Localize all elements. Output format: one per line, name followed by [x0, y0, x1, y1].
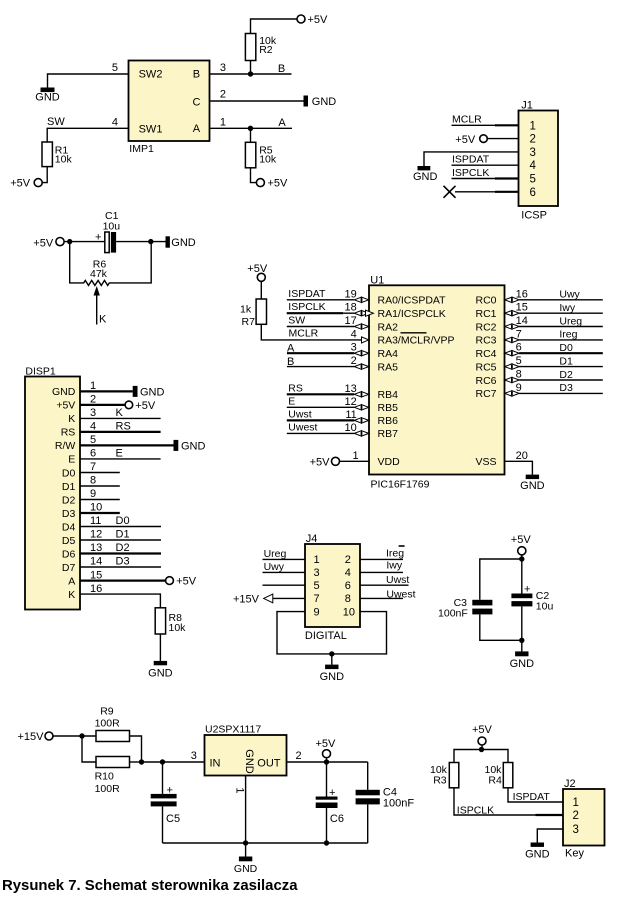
IC IMP1	[129, 61, 210, 142]
svg-text:IN: IN	[210, 757, 221, 769]
svg-text:J1: J1	[521, 100, 533, 112]
svg-text:16: 16	[90, 583, 102, 595]
svg-text:12: 12	[345, 396, 357, 408]
node junction C1 right	[148, 239, 153, 244]
wire Uwy pin 16	[505, 288, 603, 302]
svg-text:5: 5	[90, 434, 96, 446]
svg-text:8: 8	[345, 593, 351, 605]
svg-text:1: 1	[530, 120, 536, 132]
svg-text:D3: D3	[116, 556, 130, 568]
svg-text:Uwst: Uwst	[386, 574, 409, 586]
svg-text:RA3/MCLR/VPP: RA3/MCLR/VPP	[378, 335, 455, 347]
svg-text:4: 4	[351, 328, 357, 340]
wire J4 pins 9/10 loop to ground	[277, 612, 387, 654]
wire VSS pin 20 to ground	[505, 450, 533, 475]
svg-text:RB5: RB5	[378, 402, 399, 414]
svg-text:R/W: R/W	[55, 440, 76, 452]
ground J2	[525, 843, 550, 861]
svg-text:10: 10	[343, 606, 355, 618]
power +5V (R2 top)	[297, 14, 328, 26]
svg-text:9: 9	[314, 606, 320, 618]
svg-text:MCLR: MCLR	[452, 114, 482, 126]
svg-text:15: 15	[516, 302, 528, 314]
wire ISPDAT pin 19	[287, 288, 369, 303]
power +5V DISP1 pin2	[125, 400, 156, 412]
svg-text:RA0/ICSPDAT: RA0/ICSPDAT	[378, 295, 447, 307]
svg-text:RC2: RC2	[475, 321, 496, 333]
power +15V input	[18, 731, 54, 743]
power +5V (R1 bottom)	[10, 178, 42, 190]
power +5V (R3/R4)	[472, 724, 493, 750]
resistor R10 100R	[95, 757, 142, 795]
svg-text:D1: D1	[116, 529, 130, 541]
ground J1	[413, 166, 438, 183]
svg-text:+15V: +15V	[18, 731, 45, 743]
svg-text:GND: GND	[520, 480, 545, 492]
svg-text:RC5: RC5	[475, 361, 496, 373]
svg-text:11: 11	[90, 515, 101, 527]
svg-text:+5V: +5V	[56, 400, 75, 412]
connector J4	[305, 533, 360, 627]
svg-text:D1: D1	[559, 355, 573, 367]
svg-text:GND: GND	[140, 386, 165, 398]
wire SW pin 17	[287, 315, 369, 330]
wire Uwest J4 pin8	[360, 588, 416, 600]
svg-text:2: 2	[90, 394, 96, 406]
svg-text:A: A	[278, 117, 286, 129]
svg-text:Uwst: Uwst	[288, 408, 311, 420]
wire DISP1 pin7	[80, 461, 120, 473]
svg-text:12: 12	[90, 529, 102, 541]
node junction R3/R4 top	[479, 747, 484, 752]
svg-text:+5V: +5V	[316, 738, 337, 750]
capacitor C2 10u	[511, 584, 553, 613]
svg-text:E: E	[116, 448, 123, 460]
node junction U2 gnd rail	[243, 840, 248, 845]
svg-text:D7: D7	[62, 562, 76, 574]
svg-text:SW: SW	[47, 116, 65, 128]
svg-text:GND: GND	[510, 658, 535, 670]
svg-text:RC6: RC6	[475, 375, 496, 387]
svg-text:K: K	[68, 589, 75, 601]
wire DISP1 pin11 net D0	[80, 515, 161, 527]
node junction C2/C3 bottom	[519, 638, 524, 643]
wire ISPCLK to J2 pin2	[454, 788, 563, 817]
pin 4 input arrow	[351, 328, 369, 343]
wire Uwest pin 10	[287, 421, 369, 436]
ground (right of C wire)	[304, 96, 337, 109]
svg-text:RA4: RA4	[378, 348, 399, 360]
svg-text:10k: 10k	[55, 153, 73, 165]
wire R10 left branch	[82, 736, 96, 762]
svg-text:Iwy: Iwy	[559, 302, 576, 314]
svg-text:1: 1	[573, 797, 579, 809]
svg-text:2: 2	[530, 134, 536, 146]
svg-text:4: 4	[112, 116, 118, 128]
node junction A/R5	[248, 126, 253, 131]
svg-text:4: 4	[90, 421, 96, 433]
svg-text:2: 2	[345, 554, 351, 566]
node junction C3 top	[519, 556, 524, 561]
svg-text:E: E	[288, 395, 295, 407]
svg-text:D2: D2	[116, 542, 130, 554]
svg-text:3: 3	[90, 407, 96, 419]
wire pin3 net B	[210, 73, 292, 75]
svg-text:Ireg: Ireg	[559, 329, 577, 341]
svg-text:4: 4	[530, 160, 537, 172]
wire C3 branch top	[480, 559, 522, 600]
svg-text:100nF: 100nF	[383, 797, 414, 809]
node junction OUT/+5V	[324, 759, 329, 764]
svg-text:ISPDAT: ISPDAT	[452, 154, 490, 166]
resistor R4 10k	[485, 763, 513, 788]
wire Ureg pin 14	[505, 315, 603, 329]
node junction C1 left	[67, 239, 72, 244]
svg-text:5: 5	[530, 174, 536, 186]
svg-text:6: 6	[90, 448, 96, 460]
svg-text:8: 8	[516, 369, 522, 381]
svg-text:RA2: RA2	[378, 321, 399, 333]
resistor R2 10k	[245, 19, 297, 74]
svg-text:MCLR: MCLR	[289, 328, 319, 340]
svg-text:Rysunek 7. Schemat sterownika: Rysunek 7. Schemat sterownika zasilacza	[2, 878, 298, 894]
IC U1 PIC16F1769	[369, 274, 505, 474]
node junction R9/R10 left	[79, 733, 84, 738]
svg-text:19: 19	[345, 288, 357, 300]
svg-text:+: +	[167, 784, 173, 796]
wire DISP1 pin10	[80, 502, 120, 514]
svg-text:R9: R9	[100, 706, 114, 718]
svg-text:+: +	[95, 232, 101, 244]
wire DISP1 pin12 net D1	[80, 529, 161, 541]
svg-text:OUT: OUT	[257, 757, 281, 769]
power +5V (C1 left)	[33, 238, 64, 250]
svg-text:R4: R4	[488, 775, 502, 787]
svg-text:ISPDAT: ISPDAT	[288, 288, 326, 300]
svg-text:GND: GND	[181, 440, 206, 452]
svg-text:10u: 10u	[536, 600, 554, 612]
svg-text:+5V: +5V	[511, 534, 532, 546]
svg-text:GND: GND	[413, 171, 438, 183]
svg-text:E: E	[68, 454, 75, 466]
svg-text:2: 2	[296, 750, 302, 762]
node junction B/R2	[248, 71, 253, 76]
svg-text:18: 18	[345, 302, 357, 314]
svg-text:R2: R2	[259, 44, 273, 56]
svg-text:C6: C6	[330, 813, 344, 825]
wire DISP1 pin15 to +5V	[80, 569, 166, 581]
svg-text:+5V: +5V	[10, 178, 31, 190]
wire DISP1 pin8	[80, 475, 120, 487]
svg-text:D0: D0	[116, 515, 130, 527]
svg-text:+5V: +5V	[310, 457, 331, 469]
svg-text:10: 10	[345, 422, 357, 434]
wire Uwy J4 pin3	[263, 561, 306, 573]
svg-text:U2SPX1117: U2SPX1117	[205, 724, 261, 736]
power +5V J1 pin2	[455, 134, 518, 146]
wire Ireg pin 7	[505, 328, 603, 342]
svg-text:D5: D5	[62, 535, 76, 547]
resistor R8 10k	[155, 608, 186, 661]
svg-text:16: 16	[516, 288, 528, 300]
svg-text:2: 2	[220, 89, 226, 101]
wire DISP1 pin4 net RS	[80, 421, 161, 433]
wire ISPDAT J1 pin4	[452, 164, 519, 166]
svg-text:RB6: RB6	[378, 415, 399, 427]
svg-text:1k: 1k	[240, 303, 252, 315]
svg-text:VDD: VDD	[378, 456, 401, 468]
svg-text:RA1/ICSPCLK: RA1/ICSPCLK	[378, 308, 446, 320]
svg-text:RC7: RC7	[475, 388, 496, 400]
node junction R9/R10 right	[139, 759, 144, 764]
power +5V (U2 out)	[316, 738, 337, 762]
svg-text:Iwy: Iwy	[386, 560, 403, 572]
wire C1 to GND	[116, 241, 165, 243]
svg-text:RA5: RA5	[378, 361, 399, 373]
wire +5V split to R3/R4	[454, 750, 508, 763]
power +5V VDD pin 1	[310, 450, 369, 469]
svg-text:RB4: RB4	[378, 389, 399, 401]
ground DISP1 pin1	[133, 386, 165, 399]
wire pin1 net A	[210, 127, 293, 129]
wire DISP1 pin14 net D3	[80, 556, 161, 568]
capacitor C3 100nF	[438, 597, 492, 620]
svg-text:3: 3	[220, 62, 226, 74]
svg-text:+: +	[524, 584, 530, 596]
svg-text:RC0: RC0	[475, 295, 496, 307]
node junction C5 top	[160, 759, 165, 764]
wiper arrow K	[94, 286, 108, 326]
svg-text:RC3: RC3	[475, 335, 496, 347]
svg-text:R3: R3	[433, 775, 447, 787]
power +15V J4 pin7	[233, 593, 305, 605]
svg-text:6: 6	[345, 580, 351, 592]
wire ISPCLK J1 pin5	[452, 178, 496, 180]
svg-text:B: B	[193, 69, 200, 81]
wire bottom ground rail	[163, 842, 368, 844]
wire C2 bottom to ground	[521, 606, 523, 651]
svg-text:Uwy: Uwy	[559, 289, 580, 301]
svg-text:+5V: +5V	[455, 134, 476, 146]
svg-text:Key: Key	[565, 847, 584, 859]
wire R9 right	[130, 736, 142, 762]
svg-text:DISP1: DISP1	[25, 366, 56, 378]
svg-text:Ureg: Ureg	[264, 548, 287, 560]
connector J2	[563, 778, 605, 846]
wire RS pin 13	[287, 382, 369, 397]
power +5V (C2/C3)	[511, 534, 532, 555]
wire D1 pin 5	[505, 355, 603, 369]
capacitor C1 10u	[95, 210, 120, 253]
ground C2	[510, 651, 535, 669]
wire pin5 to IMP1	[48, 74, 129, 88]
svg-text:47k: 47k	[90, 268, 108, 280]
svg-text:+5V: +5V	[472, 724, 493, 736]
ground (right of C1)	[166, 236, 196, 249]
svg-text:3: 3	[351, 342, 357, 354]
svg-text:D2: D2	[62, 494, 76, 506]
svg-text:1: 1	[353, 450, 359, 462]
svg-text:C: C	[193, 97, 201, 109]
svg-text:PIC16F1769: PIC16F1769	[371, 478, 430, 490]
svg-text:10: 10	[90, 502, 102, 514]
svg-text:D0: D0	[62, 467, 76, 479]
svg-text:10k: 10k	[259, 154, 277, 166]
svg-text:C5: C5	[166, 813, 180, 825]
svg-text:20: 20	[516, 450, 528, 462]
capacitor C6	[316, 762, 344, 843]
wire to U2 IN pin 3	[142, 750, 205, 762]
svg-text:+5V: +5V	[135, 400, 156, 412]
svg-text:A: A	[68, 575, 75, 587]
svg-text:GND: GND	[320, 671, 345, 683]
svg-text:GND: GND	[171, 237, 196, 249]
svg-text:7: 7	[90, 461, 96, 473]
svg-text:R10: R10	[95, 771, 114, 783]
svg-text:+: +	[329, 787, 335, 799]
ground DISP1 pin5	[174, 440, 206, 453]
wire DISP1 pin3 net K	[80, 407, 161, 419]
svg-text:100R: 100R	[95, 783, 121, 795]
svg-text:3: 3	[314, 567, 320, 579]
svg-text:J2: J2	[564, 778, 576, 790]
svg-text:RB7: RB7	[378, 428, 399, 440]
svg-text:RS: RS	[61, 427, 76, 439]
svg-text:6: 6	[530, 187, 536, 199]
node junction J4 ground	[329, 651, 334, 656]
svg-text:+5V: +5V	[176, 576, 197, 588]
ground GND left of IMP1	[35, 88, 60, 104]
svg-text:B: B	[287, 356, 294, 368]
svg-text:3: 3	[530, 147, 536, 159]
no-connect X mark	[444, 186, 456, 198]
svg-text:U1: U1	[370, 274, 384, 286]
svg-text:Ireg: Ireg	[386, 547, 404, 559]
svg-text:6: 6	[516, 342, 522, 354]
svg-text:7: 7	[516, 328, 522, 340]
svg-text:1: 1	[90, 380, 96, 392]
svg-text:RC4: RC4	[475, 348, 496, 360]
wire Ireg J4 pin2	[360, 546, 405, 559]
wire ISPDAT to J2 pin1	[508, 788, 563, 803]
svg-text:13: 13	[345, 383, 357, 395]
svg-text:+5V: +5V	[247, 263, 268, 275]
svg-text:A: A	[287, 343, 295, 355]
wire +5V down to C2	[521, 555, 523, 594]
capacitor C4 100nF	[356, 762, 415, 843]
svg-text:R7: R7	[242, 316, 256, 328]
svg-text:Uwest: Uwest	[386, 588, 415, 600]
wire U2 OUT pin 2	[287, 750, 368, 762]
svg-text:GND: GND	[243, 749, 255, 774]
svg-text:5: 5	[516, 355, 522, 367]
svg-text:9: 9	[90, 488, 96, 500]
wire MCLR J1 pin1	[452, 124, 496, 126]
svg-text:K: K	[68, 413, 75, 425]
svg-text:D3: D3	[62, 508, 76, 520]
wire DISP1 pin13 net D2	[80, 542, 161, 554]
svg-text:13: 13	[90, 542, 102, 554]
resistor R1 10k	[42, 142, 72, 183]
resistor R7 1k	[240, 281, 267, 328]
node junction C6 bottom	[324, 840, 329, 845]
svg-text:GND: GND	[234, 863, 258, 875]
svg-text:17: 17	[345, 315, 357, 327]
wire Uwst pin 11	[287, 408, 369, 423]
resistor R5 10k	[245, 128, 276, 182]
wire J4 pin5	[263, 584, 306, 586]
svg-text:11: 11	[345, 409, 356, 421]
svg-text:RC1: RC1	[475, 308, 496, 320]
svg-text:D6: D6	[62, 548, 76, 560]
svg-text:D4: D4	[62, 521, 76, 533]
wire D0 pin 6	[505, 342, 603, 356]
svg-text:SW2: SW2	[139, 69, 163, 81]
svg-text:+5V: +5V	[308, 14, 329, 26]
svg-text:D1: D1	[62, 481, 76, 493]
wire C3 branch bottom	[480, 614, 522, 640]
svg-text:10k: 10k	[169, 622, 187, 634]
svg-text:+5V: +5V	[268, 178, 289, 190]
svg-text:SW: SW	[288, 315, 305, 327]
wire ISPCLK pin 18	[287, 301, 374, 316]
wire Iwy pin 15	[505, 302, 603, 316]
wire B pin 2	[287, 355, 369, 369]
svg-text:1: 1	[220, 116, 226, 128]
power +5V DISP1 pin15	[166, 576, 197, 588]
svg-text:Ureg: Ureg	[559, 315, 582, 327]
svg-text:+15V: +15V	[233, 593, 260, 605]
svg-text:RS: RS	[288, 382, 303, 394]
wire D3 pin 9	[505, 382, 603, 396]
wire Ureg J4 pin1	[263, 548, 306, 560]
wire DISP1 pin9	[80, 488, 120, 500]
potentiometer R6 47k	[70, 242, 152, 286]
svg-text:2: 2	[351, 355, 357, 367]
svg-text:Uwy: Uwy	[264, 561, 285, 573]
wire pin4 net SW	[47, 128, 128, 142]
svg-text:+5V: +5V	[33, 238, 54, 250]
wire J1 pin6	[455, 191, 495, 193]
wire A pin 3	[287, 342, 369, 356]
svg-text:K: K	[99, 314, 107, 326]
svg-text:14: 14	[516, 315, 528, 327]
svg-text:1: 1	[314, 554, 320, 566]
svg-text:ICSP: ICSP	[521, 210, 547, 222]
capacitor C5	[151, 762, 180, 843]
power +5V (R5 bottom)	[256, 178, 288, 190]
svg-text:Uwest: Uwest	[288, 421, 317, 433]
wire D2 pin 8	[505, 369, 603, 383]
wire DISP1 pin1 to ground	[80, 380, 133, 392]
svg-text:14: 14	[90, 556, 102, 568]
ground VSS	[520, 475, 545, 492]
svg-text:D0: D0	[559, 342, 573, 354]
svg-text:4: 4	[345, 567, 351, 579]
wire J2 pin3 to ground	[537, 829, 563, 843]
svg-text:GND: GND	[312, 96, 337, 108]
svg-text:D2: D2	[559, 369, 573, 381]
svg-text:VSS: VSS	[475, 456, 496, 468]
svg-text:GND: GND	[52, 386, 76, 398]
wire MCLR to RA3 pin 4	[261, 324, 361, 340]
wire U2 GND pin 1	[233, 776, 245, 844]
wire DISP1 pin5 to ground	[80, 434, 174, 446]
svg-text:B: B	[278, 63, 285, 75]
ground U2	[234, 843, 258, 875]
ground R8	[148, 661, 173, 680]
svg-text:GND: GND	[35, 92, 60, 104]
